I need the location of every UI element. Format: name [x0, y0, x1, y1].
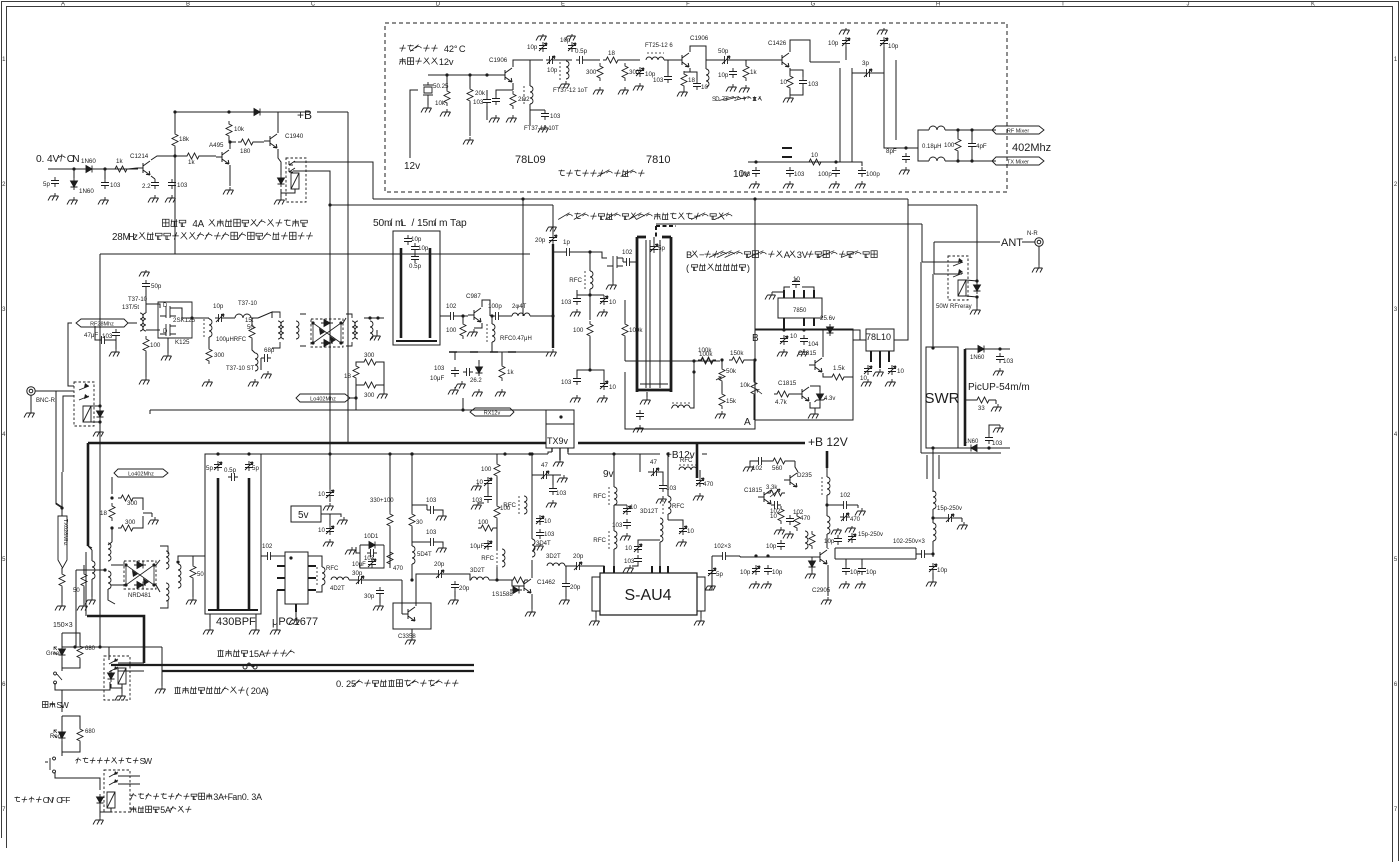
- inductor 3D12T: [660, 518, 663, 542]
- pot arrow: [757, 390, 762, 395]
- wire: [174, 112, 176, 133]
- wire emitter: [229, 165, 231, 186]
- wire: [350, 397, 356, 399]
- wire: [280, 172, 282, 175]
- wire: [690, 72, 697, 80]
- svg-text:C1815: C1815: [744, 487, 763, 494]
- wire: [853, 330, 860, 340]
- capacitor 10p: [404, 235, 412, 245]
- resistor 4.7k: [774, 391, 792, 397]
- svg-text:103: 103: [426, 529, 437, 536]
- wire: [95, 326, 98, 340]
- svg-text:103: 103: [653, 77, 664, 84]
- wire: [624, 337, 626, 361]
- wire: [995, 400, 997, 404]
- wire: [494, 527, 497, 529]
- peltier module left wall: [636, 237, 639, 392]
- diode 1N60: [83, 166, 95, 173]
- resistor 10k pot: [751, 379, 757, 397]
- wire: [487, 487, 489, 493]
- wire: [190, 555, 205, 557]
- nrd diode f2: [143, 578, 149, 585]
- svg-text:50p: 50p: [151, 283, 162, 290]
- wire rail RX down x330: [329, 205, 331, 454]
- svg-text:1k: 1k: [188, 159, 195, 166]
- wire relay contact feed: [100, 647, 109, 660]
- svg-text:300: 300: [127, 500, 138, 507]
- wire: [75, 570, 77, 647]
- svg-text:N-R: N-R: [1027, 231, 1038, 237]
- wire: [795, 461, 798, 472]
- wire: [145, 352, 147, 377]
- inductor output a: [933, 491, 936, 509]
- svg-text:m: m: [439, 218, 448, 229]
- transformer outline4: [160, 546, 168, 608]
- inductor core dashed: [523, 86, 525, 104]
- ground: [546, 500, 557, 508]
- wire TX bus drop: [552, 205, 554, 234]
- svg-text:10p: 10p: [547, 67, 558, 74]
- resistor 10k: [226, 121, 232, 139]
- svg-text:10: 10: [687, 528, 694, 535]
- swr bridge box: [926, 347, 958, 448]
- wire: [619, 59, 640, 61]
- node: [110, 496, 113, 499]
- relay coil: [291, 173, 299, 189]
- wire emitter: [151, 176, 155, 179]
- sau4 pins: [604, 566, 668, 573]
- node: [588, 293, 591, 296]
- svg-text:103: 103: [740, 171, 751, 178]
- svg-text:18: 18: [608, 50, 615, 57]
- svg-text:103: 103: [544, 531, 555, 538]
- wire: [83, 587, 85, 603]
- rfc 12v b2: [668, 496, 671, 514]
- svg-text:330+100: 330+100: [370, 498, 394, 504]
- wire: [491, 316, 493, 324]
- wire relay contact1 drop: [921, 224, 923, 262]
- diode relay psu: [108, 670, 115, 682]
- ANT connector N-R: [1035, 238, 1043, 246]
- capacitor 10 trim: [623, 505, 631, 515]
- wire: [469, 75, 471, 88]
- node: [152, 563, 155, 566]
- capacitor 10p trim: [539, 42, 547, 52]
- svg-text:10: 10: [860, 375, 867, 382]
- wire +B feed: [317, 111, 348, 113]
- oscillator shield dashed box: [385, 23, 1007, 192]
- svg-text:0.5p: 0.5p: [575, 48, 588, 55]
- svg-text:10p: 10p: [718, 72, 729, 79]
- svg-text:10: 10: [625, 545, 632, 552]
- ground: [472, 389, 483, 397]
- wire: [478, 502, 484, 504]
- node: [588, 368, 591, 371]
- capacitor 102c: [786, 515, 794, 525]
- svg-text:1k: 1k: [507, 369, 514, 376]
- wire: [445, 573, 455, 575]
- wire: [411, 454, 413, 513]
- svg-text:D: D: [436, 2, 441, 8]
- node: [998, 347, 1001, 350]
- capacitor 10p a: [777, 540, 785, 550]
- annotation shield case: [559, 170, 645, 177]
- 10d1 loop: [360, 545, 384, 568]
- svg-text:H: H: [936, 2, 940, 8]
- node: [754, 554, 757, 557]
- wire: [416, 574, 435, 580]
- inductor nrd sec: [178, 564, 181, 588]
- inductor T37-10 sec: [143, 313, 146, 331]
- svg-text:A: A: [165, 805, 171, 815]
- bpf430 box: [205, 454, 261, 614]
- svg-text:10k: 10k: [234, 126, 245, 133]
- wire: [966, 296, 977, 297]
- svg-text:+B 12V: +B 12V: [808, 435, 848, 449]
- ground: [186, 597, 197, 605]
- zener 4.3v z: [815, 398, 826, 402]
- wire emitter: [689, 68, 691, 72]
- node: [216, 452, 219, 455]
- svg-text:100p: 100p: [488, 303, 502, 310]
- wire emitter: [512, 83, 514, 90]
- svg-text:F: F: [686, 2, 690, 8]
- fet K125: [160, 324, 176, 336]
- ground: [783, 181, 794, 189]
- wire osc out: [530, 59, 543, 61]
- resistor 150x3: [59, 571, 65, 589]
- tag Lo402Mhz: [296, 394, 350, 402]
- resistor 100: [587, 321, 593, 339]
- resistor 33: [974, 397, 992, 403]
- transistor C2905: [814, 550, 827, 564]
- wire: [91, 421, 100, 423]
- wire: [427, 98, 429, 105]
- ground: [991, 404, 1002, 412]
- wire: [667, 60, 669, 73]
- tap box bar right: [429, 248, 432, 338]
- capacitor 20p d: [451, 581, 459, 591]
- resistor 50 c: [190, 563, 196, 581]
- svg-text:102×3: 102×3: [714, 544, 732, 550]
- diode 10D1: [366, 542, 378, 549]
- transistor C987: [468, 308, 481, 322]
- ground: [139, 377, 150, 385]
- wire: [108, 542, 112, 545]
- annotation protect: [686, 263, 750, 273]
- svg-text:4D2T: 4D2T: [330, 586, 345, 592]
- svg-text:10: 10: [544, 518, 551, 525]
- capacitor 0.5p: [576, 56, 586, 64]
- wire: [750, 461, 755, 464]
- ring diode diag1: [319, 328, 325, 335]
- ground: [495, 389, 506, 397]
- node: [247, 452, 250, 455]
- resistor 30: [409, 511, 415, 529]
- wire: [62, 742, 80, 752]
- svg-text:680: 680: [85, 646, 96, 652]
- upc pins left: [277, 566, 285, 590]
- svg-text:10p: 10p: [888, 43, 899, 50]
- svg-text:10p: 10p: [411, 236, 422, 243]
- svg-text:D: D: [715, 97, 720, 103]
- wire collector: [690, 46, 706, 69]
- rfc 100uH core: [203, 319, 205, 337]
- svg-text:5v: 5v: [298, 510, 309, 521]
- resistor 150k: [729, 357, 747, 363]
- wire: [784, 287, 790, 290]
- wire output stub right: [895, 60, 897, 140]
- svg-text:10: 10: [811, 152, 818, 159]
- capacitor 470 pa: [840, 513, 850, 521]
- capacitor 30p in: [355, 576, 365, 584]
- svg-text:10k: 10k: [435, 100, 446, 107]
- resistor 680 b: [77, 726, 83, 744]
- wire: [108, 589, 115, 604]
- wire: [976, 297, 978, 307]
- wire ANT drop: [933, 242, 935, 274]
- resistor 100: [460, 321, 466, 339]
- wire: [971, 130, 973, 140]
- svg-text:E: E: [561, 2, 565, 8]
- svg-text:3.3k: 3.3k: [766, 485, 778, 491]
- wire +B vertical x348: [347, 112, 349, 443]
- wire stub a: [926, 455, 928, 479]
- wire: [252, 339, 255, 353]
- node: [612, 452, 615, 455]
- capacitor 102 bpf: [264, 552, 274, 560]
- wire rail y254: [100, 253, 530, 255]
- capacitor 8pF: [902, 153, 910, 163]
- wire: [437, 510, 443, 513]
- capacitor 103 d: [367, 549, 377, 557]
- wire: [653, 237, 655, 243]
- wire: [790, 70, 803, 77]
- wire: [765, 460, 772, 462]
- svg-text:10: 10: [790, 333, 797, 340]
- inductor rx in b: [108, 571, 111, 589]
- wire x933 to swr top: [932, 274, 934, 347]
- svg-text:10p: 10p: [213, 303, 224, 310]
- wire input node: [48, 168, 138, 170]
- wire: [965, 348, 975, 350]
- resistor pa: [809, 531, 815, 549]
- wire drain join: [176, 308, 192, 318]
- svg-text:10p: 10p: [850, 569, 861, 576]
- wire: [343, 318, 346, 323]
- svg-text:10: 10: [630, 504, 637, 511]
- svg-text:+B: +B: [297, 108, 312, 122]
- svg-text:Lo402Mhz: Lo402Mhz: [310, 397, 336, 403]
- svg-text:T37-10: T37-10: [238, 301, 258, 307]
- ground: [467, 329, 478, 337]
- svg-text:50k: 50k: [726, 368, 737, 375]
- wire: [786, 460, 795, 462]
- wire: [258, 312, 272, 318]
- ground: [202, 379, 213, 387]
- transistor D235: [784, 473, 797, 487]
- switch push SW: [45, 757, 56, 773]
- ground: [633, 425, 644, 433]
- svg-text:RFC: RFC: [593, 537, 606, 544]
- ground: [274, 197, 285, 205]
- peltier module right wall: [670, 237, 673, 392]
- wire: [496, 528, 498, 550]
- wire relay to tx028: [63, 396, 74, 472]
- svg-text:10μF: 10μF: [352, 562, 366, 568]
- node: [228, 140, 231, 143]
- svg-text:100: 100: [150, 342, 161, 349]
- ground: [323, 539, 334, 547]
- wire ANT right: [1022, 241, 1035, 243]
- diode peltier: [97, 794, 104, 806]
- capacitor 10p out: [929, 563, 937, 573]
- resistor 470 c: [387, 549, 393, 567]
- node: [339, 321, 342, 324]
- node: [410, 578, 413, 581]
- wire: [192, 579, 194, 597]
- rfc upc out: [322, 567, 325, 585]
- bpf430 bar left: [217, 478, 220, 610]
- wire: [356, 362, 363, 365]
- node: [782, 328, 785, 331]
- node: [956, 159, 959, 162]
- svg-text:50: 50: [73, 588, 80, 594]
- svg-text:): ): [747, 263, 750, 273]
- ground: [839, 581, 850, 589]
- annotation relay 5A: [131, 805, 192, 815]
- capacitor 103: [541, 110, 549, 120]
- wire: [586, 59, 600, 61]
- wire: [857, 505, 859, 508]
- wire: [454, 591, 456, 597]
- wire: [446, 75, 448, 90]
- rfc bottom: [672, 405, 690, 408]
- wire: [161, 671, 163, 686]
- svg-text:1.5k: 1.5k: [833, 365, 846, 372]
- capacitor 103 e: [427, 506, 437, 514]
- tag RF Mixer: [992, 126, 1044, 134]
- ground: [855, 581, 866, 589]
- svg-text:26.2: 26.2: [470, 378, 482, 384]
- wire collector c2905: [827, 548, 829, 549]
- inductor interstage b: [281, 321, 284, 339]
- wire: [965, 399, 976, 401]
- wire: [55, 683, 62, 690]
- wire: [530, 109, 545, 111]
- ground upc a: [270, 627, 281, 635]
- bias box outline: [755, 329, 853, 420]
- ground: [620, 533, 631, 541]
- wire: [553, 474, 561, 476]
- wire: [274, 555, 285, 557]
- node: [410, 452, 413, 455]
- node: [376, 316, 379, 319]
- svg-text:A: A: [784, 250, 791, 260]
- wire: [149, 410, 151, 414]
- wire to c1462: [455, 574, 471, 580]
- annotation B bias cut: [686, 250, 877, 260]
- capacitor 102: [447, 312, 457, 320]
- tag TX Mixer: [992, 157, 1044, 165]
- node: [190, 316, 193, 319]
- svg-text:10k: 10k: [740, 382, 751, 389]
- svg-text:4.7k: 4.7k: [775, 399, 788, 406]
- svg-text:1N60: 1N60: [79, 188, 94, 195]
- ground: [593, 87, 604, 95]
- capacitor 10 right: [888, 365, 896, 375]
- svg-text:C: C: [311, 2, 316, 8]
- capacitor 102 pa: [840, 501, 850, 509]
- wire: [489, 579, 508, 581]
- wire: [496, 477, 498, 505]
- wire: [595, 611, 597, 618]
- resistor 560: [770, 458, 788, 464]
- svg-text:3D2T: 3D2T: [546, 554, 561, 560]
- resistor 100: [494, 461, 500, 479]
- wire collector: [790, 40, 810, 62]
- transistor C1815 b: [796, 387, 809, 401]
- capacitor 20p c: [435, 570, 445, 578]
- wire relay contact1 to TX rail: [293, 162, 373, 199]
- node: [987, 446, 990, 449]
- inductor nrd out b: [166, 583, 169, 601]
- ground: [546, 349, 557, 357]
- svg-text:TX Mixer: TX Mixer: [1007, 160, 1029, 166]
- ground: [606, 282, 617, 290]
- peltier module top right: [662, 236, 671, 239]
- svg-text:RF Mixer: RF Mixer: [1007, 129, 1029, 135]
- svg-text:ANT: ANT: [1001, 237, 1023, 249]
- svg-text:4.3v: 4.3v: [824, 396, 835, 402]
- wire: [648, 471, 650, 473]
- ground: [855, 508, 866, 516]
- wire: [711, 556, 713, 567]
- wire: [364, 317, 384, 319]
- wire: [826, 495, 828, 516]
- wire nrd in top: [111, 564, 124, 566]
- ground: [440, 109, 451, 117]
- svg-text:C1214: C1214: [130, 153, 149, 160]
- svg-text:FT25-12 6: FT25-12 6: [645, 43, 673, 49]
- wire: [83, 565, 85, 573]
- annotation posistor 42C: [400, 44, 466, 54]
- wire: [308, 556, 322, 567]
- wire: [502, 315, 512, 317]
- ic 7850 pins top: [784, 290, 814, 298]
- ground: [98, 197, 109, 205]
- node: [485, 73, 488, 76]
- sau4 right tab: [697, 577, 705, 611]
- capacitor 103: [112, 329, 120, 339]
- svg-text:10: 10: [770, 513, 777, 520]
- wire: [496, 567, 498, 580]
- transistor C1462: [518, 579, 531, 593]
- wire: [229, 137, 236, 142]
- transistor C1815 pa: [758, 490, 771, 504]
- fan bracket dashed: [656, 226, 676, 238]
- ground: [506, 115, 517, 123]
- wire relay BNC drive: [99, 392, 101, 406]
- svg-text:5p: 5p: [43, 181, 50, 188]
- rfc: [590, 271, 593, 289]
- wire contact2 link: [934, 273, 962, 275]
- svg-text:20p: 20p: [573, 553, 584, 560]
- wire tx9v left pin: [548, 452, 552, 454]
- svg-text:4pF: 4pF: [976, 143, 987, 150]
- wire: [251, 318, 253, 325]
- wire: [462, 316, 464, 323]
